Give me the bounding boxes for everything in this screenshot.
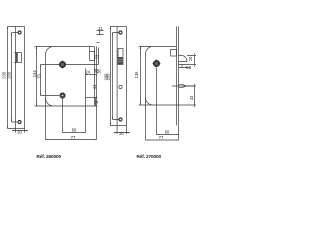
- cylinder axis vertical extension: [85, 69, 87, 133]
- svg-text:Réf. 270000: Réf. 270000: [137, 154, 162, 159]
- svg-text:77: 77: [159, 135, 164, 140]
- svg-text:23: 23: [95, 54, 100, 59]
- bottom dims left case: extension lines: [46, 98, 97, 140]
- dim 23 latch to follower axis: [98, 48, 100, 65]
- dim 50 right case: [157, 134, 179, 136]
- screw hole top left plate: [18, 31, 21, 34]
- cylinder hole left case: [60, 93, 66, 99]
- dim 70 left case: [41, 65, 60, 96]
- dim 200 left plate: [12, 33, 18, 123]
- dim 43 deadbolt to case bottom: [186, 86, 197, 105]
- dim 230 right plate: [111, 27, 118, 126]
- latch bolt protruding right case: [179, 56, 188, 62]
- dim 230 left plate: [8, 27, 16, 129]
- follower axis extension left case: [67, 64, 99, 66]
- svg-text:20: 20: [188, 56, 193, 61]
- svg-text:20: 20: [17, 130, 22, 135]
- screw hole bottom left plate: [18, 121, 21, 124]
- screw hole top right plate: [119, 31, 122, 34]
- svg-text:136: 136: [134, 71, 139, 79]
- svg-text:6,5: 6,5: [186, 65, 192, 70]
- svg-text:24: 24: [85, 69, 90, 74]
- latch cutout left plate: [16, 53, 21, 63]
- follower nut left case: [58, 60, 66, 68]
- svg-text:70: 70: [36, 73, 41, 78]
- faceplate front view left (Réf.260000): [16, 27, 25, 129]
- svg-text:41: 41: [92, 84, 97, 89]
- lock case side view left: [35, 47, 98, 107]
- latch bolt face dark bar: [16, 53, 18, 62]
- dim 200 right plate: [113, 33, 120, 120]
- dim 24 cylinder axis to faceplate: [86, 74, 97, 76]
- bottom dims right case extensions: [146, 68, 179, 140]
- dim 50 left case: [63, 132, 86, 134]
- dim 20 left plate bottom: [12, 129, 28, 133]
- svg-text:36: 36: [97, 69, 102, 74]
- dim 20 right plate bottom: [114, 126, 130, 135]
- svg-text:24: 24: [94, 100, 98, 104]
- dim 6,5 arrows: [179, 65, 191, 68]
- svg-text:50: 50: [165, 130, 170, 135]
- mystery tick above latch: [97, 42, 100, 44]
- dim 77 right case: [146, 139, 179, 141]
- latch housing inside right case: [171, 50, 177, 57]
- deadbolt right case: [172, 84, 195, 87]
- svg-text:20: 20: [119, 131, 124, 136]
- svg-text:Réf. 260000: Réf. 260000: [37, 154, 62, 159]
- dim 41 frame: [86, 97, 98, 99]
- faceplate side view right: [177, 27, 179, 126]
- svg-text:200: 200: [106, 73, 111, 81]
- dim 136 right case: [140, 47, 142, 106]
- svg-text:77: 77: [71, 135, 76, 140]
- svg-text:43: 43: [189, 95, 194, 100]
- lock case side view right: [139, 47, 196, 106]
- svg-text:11: 11: [98, 26, 103, 31]
- svg-text:200: 200: [7, 71, 12, 79]
- faceplate front view right: [117, 27, 126, 126]
- dim 11 right of plate top: [97, 31, 104, 35]
- svg-text:50: 50: [72, 128, 77, 133]
- follower axis ext right case: [179, 64, 197, 66]
- latch bolt dark block: [118, 57, 123, 64]
- dim 20 latch right case: [187, 56, 196, 65]
- faceplate side view left: [95, 47, 97, 107]
- bolt hole circle right plate: [119, 85, 122, 88]
- dim 134 left case: [36, 47, 38, 107]
- follower nut right case: [152, 59, 160, 67]
- latch tail inside case: [90, 52, 95, 61]
- screw hole bottom right plate: [119, 118, 122, 121]
- dim 77 left case: [46, 139, 97, 141]
- cutout ticks: [14, 53, 16, 63]
- latch cutout right plate: [118, 49, 123, 65]
